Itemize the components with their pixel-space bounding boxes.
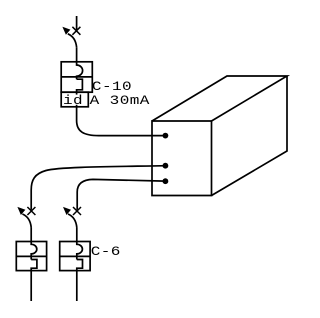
wire supply feed into switch Q1	[76, 16, 78, 30]
svg-text:id: id	[63, 94, 83, 108]
wire terminal 2 to switch Q2	[31, 166, 165, 210]
wire switch Q1 to RCBO F1	[76, 47, 78, 62]
RCD module box (id) of F1	[61, 92, 88, 107]
magnetic release (hook) in F2	[31, 260, 37, 271]
breaker F3 cell divider	[60, 255, 90, 257]
switch Q1 (incoming disconnect, x contact)	[62, 27, 80, 48]
distribution box right face	[212, 76, 288, 196]
node terminal 1	[163, 133, 169, 139]
switch Q3 (right branch, x contact)	[63, 207, 81, 228]
distribution box front face	[152, 121, 212, 196]
breaker F2 cell divider	[16, 255, 46, 257]
node terminal 3	[163, 178, 169, 184]
wire breaker F2 output	[30, 271, 32, 301]
wire terminal 3 to switch Q3	[77, 179, 165, 209]
svg-text:C-10: C-10	[92, 80, 132, 94]
thermal release (semicircle) in F3	[77, 242, 83, 260]
magnetic release (hook) in F1	[77, 79, 83, 107]
node terminal 2	[163, 163, 169, 169]
magnetic release (hook) in F3	[77, 260, 83, 271]
wire switch Q3 to breaker F3	[76, 227, 78, 241]
wire switch Q2 to breaker F2	[30, 227, 32, 241]
label idA 30mA	[63, 94, 150, 108]
RCBO F1 body (cells 1-2 outline)	[61, 62, 92, 92]
wire breaker F3 output	[76, 271, 78, 301]
wire RCBO F1 to distribution box terminal 1	[77, 107, 166, 136]
svg-text:A 30mA: A 30mA	[90, 95, 150, 109]
distribution box top face	[152, 76, 287, 121]
breaker F3 body	[60, 242, 90, 271]
thermal release (semicircle) in F1	[77, 62, 83, 79]
thermal release (semicircle) in F2	[31, 242, 37, 260]
svg-text:C-6: C-6	[91, 245, 121, 259]
breaker F2 body	[16, 242, 46, 271]
RCBO F1 cell divider	[61, 76, 92, 78]
switch Q2 (left branch, x contact)	[17, 207, 35, 228]
